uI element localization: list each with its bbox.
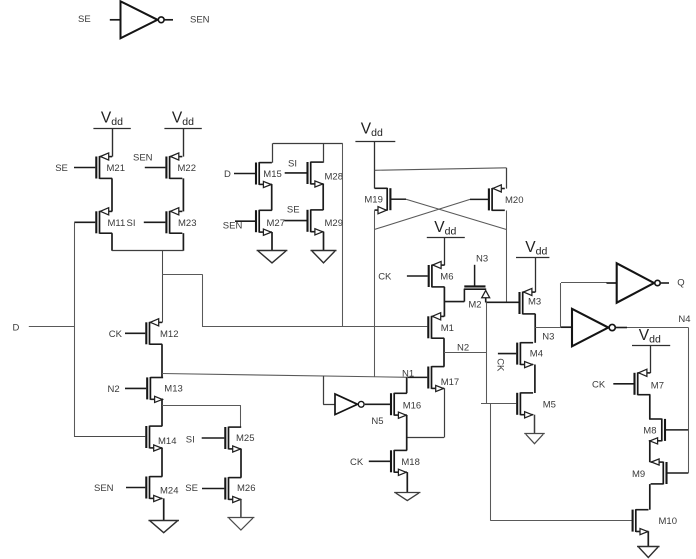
wire Vdd to M3 [535, 257, 537, 292]
transistor M6 [429, 261, 454, 287]
Vdd supply (M19) [355, 121, 395, 142]
wire M6-M1 [443, 287, 445, 317]
transistor M21 [96, 153, 125, 179]
svg-text:SI: SI [288, 159, 297, 170]
wire M27 to ground [271, 232, 273, 250]
svg-text:N2: N2 [108, 384, 120, 395]
wire M19 drain down to N1 [374, 210, 376, 376]
transistor M17 [428, 366, 459, 392]
ground under M18 [394, 493, 420, 501]
wire M22-M23 [182, 178, 184, 211]
wire M5 to ground [534, 415, 536, 434]
svg-text:CK: CK [350, 457, 364, 468]
svg-text:M22: M22 [178, 163, 196, 174]
svg-text:M28: M28 [325, 172, 343, 183]
transistor M19 [364, 188, 390, 214]
transistor M18 [391, 450, 420, 476]
wire N5 inverter input [323, 376, 335, 405]
transistor M24 [146, 476, 178, 502]
svg-text:N1: N1 [402, 369, 414, 380]
svg-text:SE: SE [55, 163, 68, 174]
transistor M25 [225, 427, 254, 453]
wire M7-M8 [649, 395, 651, 419]
ground under M24 [148, 521, 179, 533]
wire M20 drain down to M3 gate net [506, 211, 508, 303]
wire M20 gate cross to M19 drain [374, 199, 488, 229]
wire node down to M5 gate [486, 302, 488, 404]
svg-text:CK: CK [494, 358, 505, 372]
wire SE to M29 gate [284, 205, 306, 221]
wire N4 [615, 314, 691, 430]
wire M1 drain down / N2 node [444, 338, 487, 367]
transistor M14 [146, 426, 176, 452]
svg-text:D: D [224, 169, 231, 180]
transistor M2 [444, 286, 489, 310]
inverter N3->N4 [572, 309, 615, 347]
wire M10 to ground [647, 532, 649, 547]
transistor M20 [489, 185, 524, 211]
wire M8 gate [666, 429, 689, 431]
svg-text:N2: N2 [457, 342, 469, 353]
transistor M13 [147, 377, 183, 403]
svg-text:N5: N5 [371, 416, 383, 427]
wire M3 source / N3 [534, 314, 536, 343]
wire D to M15 gate [224, 169, 255, 180]
wire CK to M18 gate [350, 457, 390, 468]
wire SE to M21 gate [55, 163, 95, 174]
wire M16 drain up to N1 [406, 377, 408, 393]
wire N1 link (M13 drain to M17 gate) [162, 369, 427, 380]
svg-text:M14: M14 [158, 436, 176, 447]
wire M4-M5 [534, 365, 536, 394]
wire M18 to ground [406, 472, 408, 492]
svg-text:M16: M16 [403, 400, 421, 411]
svg-text:M10: M10 [659, 516, 677, 527]
transistor M29 [308, 209, 343, 235]
svg-text:M27: M27 [267, 218, 285, 229]
transistor M16 [391, 393, 421, 419]
wire SI to M25 gate [186, 434, 225, 445]
svg-text:N3: N3 [476, 254, 488, 265]
svg-text:CK: CK [109, 329, 123, 340]
svg-text:N4: N4 [678, 314, 690, 325]
wire N3 to inverter [535, 327, 572, 342]
transistor M15 [256, 162, 282, 188]
svg-text:SE: SE [78, 14, 91, 25]
svg-text:SEN: SEN [94, 483, 114, 494]
ground under M26 [227, 518, 254, 531]
svg-text:M26: M26 [237, 483, 255, 494]
wire M16-M18 [406, 415, 408, 450]
svg-text:D: D [13, 322, 20, 333]
svg-text:M25: M25 [236, 433, 254, 444]
wire top link M19-M20 [375, 168, 507, 189]
svg-text:M23: M23 [178, 218, 196, 229]
svg-text:SEN: SEN [223, 220, 243, 231]
wire M26 to ground [240, 499, 242, 517]
transistor M10 [633, 509, 677, 535]
svg-text:M24: M24 [160, 485, 178, 496]
wire output rail of M11/M23 [112, 250, 183, 252]
wire vertical D/SI net [74, 222, 76, 437]
svg-text:M17: M17 [441, 377, 459, 388]
transistor M8 [643, 419, 665, 445]
wire M9 gate [667, 430, 688, 473]
wire M24 to ground [163, 498, 165, 520]
wire M15-M27 [271, 184, 273, 210]
svg-text:CK: CK [592, 379, 606, 390]
svg-text:M15: M15 [263, 169, 281, 180]
svg-text:SEN: SEN [133, 153, 153, 164]
wire SEN to M27 gate [223, 220, 255, 231]
wire long vertical to M1 gate net [342, 143, 344, 327]
wire M29 to ground [323, 232, 325, 251]
svg-text:SEN: SEN [190, 15, 210, 26]
wire N5 to M16 gate [365, 403, 390, 405]
svg-text:M21: M21 [107, 163, 125, 174]
svg-text:SE: SE [185, 483, 198, 494]
ground under M10 [637, 547, 660, 558]
ground under M27 [257, 251, 288, 263]
wire CK to M7 gate [592, 379, 634, 390]
transistor M11 [96, 208, 125, 234]
wire SI to M28 gate [285, 159, 307, 173]
wire M11 bottom [111, 233, 113, 251]
wire top rail M15/M28 [273, 143, 343, 162]
svg-text:M13: M13 [164, 384, 182, 395]
Vdd supply (M6) [427, 219, 465, 238]
svg-text:SI: SI [127, 218, 136, 229]
svg-text:N3: N3 [542, 332, 554, 343]
inverter SE->SEN [121, 1, 165, 38]
svg-text:M4: M4 [530, 348, 543, 359]
wire Vdd to M22 [183, 129, 185, 157]
svg-text:M1: M1 [441, 323, 454, 334]
svg-text:M6: M6 [440, 272, 453, 283]
wire M13-M14 [161, 399, 163, 426]
svg-text:M5: M5 [543, 399, 556, 410]
svg-text:M18: M18 [401, 457, 419, 468]
wire rail down to M12 [162, 251, 164, 323]
wire CK to M12 gate [109, 329, 146, 340]
Vdd supply (M22) [164, 109, 201, 128]
wire SEN to M22 gate [133, 153, 165, 168]
transistor M22 [166, 153, 196, 179]
wire M8-M9 [649, 441, 651, 462]
svg-text:Q: Q [677, 277, 684, 288]
wire branch to M1 gate [162, 274, 427, 327]
wire N3 to M2 gate [475, 254, 489, 286]
Vdd supply (M3) [516, 239, 549, 258]
svg-text:M2: M2 [468, 299, 481, 310]
wire Vdd to M21 [112, 129, 114, 157]
ground under M29 [311, 251, 337, 263]
wire SI to M23 gate [127, 218, 166, 229]
svg-text:SE: SE [287, 205, 300, 216]
transistor M12 [146, 319, 178, 345]
svg-text:M3: M3 [528, 297, 541, 308]
wire M9-M10 [649, 484, 651, 510]
wire M12-M13 [161, 344, 163, 377]
transistor M7 [635, 369, 665, 395]
wire M28-M29 [322, 184, 324, 210]
wire M17 source [407, 388, 445, 437]
svg-text:M20: M20 [505, 195, 523, 206]
Vdd supply (M7) [632, 327, 670, 346]
svg-text:M12: M12 [160, 329, 178, 340]
wire M10 gate net [490, 404, 631, 521]
wire M5 gate [481, 403, 516, 405]
transistor M3 [520, 288, 542, 314]
svg-text:M8: M8 [643, 426, 656, 437]
wire M14 gate from D/SI net [74, 436, 145, 438]
svg-text:M19: M19 [364, 195, 382, 206]
wire SE to M26 gate [185, 483, 224, 494]
svg-text:M11: M11 [108, 218, 126, 229]
wire M11 gate from D/SI net [74, 221, 95, 223]
wire M25-M26 [240, 449, 242, 478]
transistor M1 [428, 313, 454, 339]
wire M14-M24 [161, 448, 163, 477]
inverter N5 [335, 394, 384, 427]
wire N2 to M13 gate [108, 384, 147, 395]
inverter Q output [617, 263, 661, 302]
wire Vdd to M19 [374, 141, 376, 188]
wire CK to M6 gate [378, 272, 428, 283]
wire D input [13, 322, 75, 333]
wire tap to Q inverter [561, 283, 618, 328]
transistor M9 [632, 459, 667, 485]
wire M21-M11 [111, 178, 113, 211]
wire M23 bottom [182, 233, 184, 251]
wire SEN output [164, 15, 209, 26]
transistor M28 [308, 162, 343, 188]
transistor M5 [517, 392, 556, 418]
wire M19 gate cross to M20 drain [390, 199, 506, 229]
svg-text:M29: M29 [325, 218, 343, 229]
transistor M23 [166, 208, 196, 234]
ground under M5 [524, 434, 545, 444]
wire SEN to M24 gate [94, 483, 145, 494]
wire Vdd to M6 [444, 238, 446, 266]
transistor M27 [256, 210, 285, 236]
wire CK stub to M4 gate [494, 354, 516, 372]
wire M2 drain to M3 gate [486, 301, 519, 303]
wire Vdd to M7 [650, 346, 652, 373]
svg-text:M7: M7 [651, 381, 664, 392]
wire Q [660, 277, 685, 288]
wire branch to M25 [162, 406, 241, 428]
svg-text:CK: CK [378, 272, 392, 283]
Vdd supply (M21) [93, 109, 130, 128]
svg-text:M9: M9 [632, 469, 645, 480]
svg-text:SI: SI [186, 434, 195, 445]
wire SE input [78, 14, 121, 25]
transistor M26 [225, 477, 255, 503]
transistor M4 [517, 342, 543, 368]
